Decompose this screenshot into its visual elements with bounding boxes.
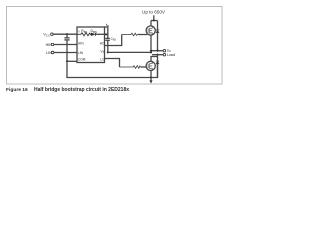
svg-text:Up to 650V: Up to 650V	[142, 9, 166, 14]
wire RG to LS gate	[141, 66, 146, 68]
node VS/switch junction	[150, 51, 152, 53]
resistor RG low side	[120, 66, 142, 69]
wire COM pin	[67, 60, 77, 62]
svg-text:HIN: HIN	[78, 41, 84, 45]
svg-text:LO: LO	[100, 58, 105, 62]
svg-text:CBS: CBS	[111, 37, 117, 42]
diode HS body diode	[157, 21, 159, 30]
wire bus top split	[151, 20, 158, 22]
node CBS/VS junction	[107, 51, 109, 53]
wire HO pin	[105, 35, 122, 46]
terminal To	[163, 49, 166, 52]
node COM/CVCC junction	[66, 60, 68, 62]
capacitor CBS	[105, 38, 109, 52]
wire switch node to Load terminal	[152, 54, 163, 56]
ground	[150, 78, 152, 81]
transistor Q2 low-side MOSFET	[146, 61, 155, 70]
svg-text:V: V	[78, 30, 80, 34]
wire VB column down to CBS	[107, 27, 109, 38]
svg-text:LIN: LIN	[78, 51, 84, 55]
wire HS drain	[150, 21, 152, 26]
terminal Load	[163, 53, 166, 56]
transistor Q1 high-side MOSFET	[146, 26, 155, 35]
diode DBS (internal bootstrap diode)	[91, 33, 95, 36]
node bus junction	[153, 19, 155, 21]
op-amp U1 gate driver IC box	[77, 27, 105, 63]
wire DBS to VB pin	[96, 33, 109, 35]
wire bus drop from 650V label	[153, 15, 155, 20]
wire ground rail	[67, 61, 158, 77]
figure frame border	[7, 7, 223, 85]
wire switch node to To terminal	[151, 50, 163, 52]
node To junction B	[156, 50, 158, 52]
svg-text:HO: HO	[100, 41, 105, 45]
node Load junction	[156, 54, 158, 56]
wire LO pin	[105, 59, 120, 68]
wire IC top edge extension to VB column	[105, 26, 109, 28]
wire HIN to IC	[54, 44, 77, 46]
node VCC/CVCC junction	[66, 33, 68, 35]
wire HS source to switch node	[150, 35, 152, 52]
wire LS drain to switch node	[151, 57, 158, 62]
wire RG to gate	[138, 34, 147, 36]
node VB pin junction	[105, 33, 107, 35]
wire LS source to ground rail	[150, 71, 152, 78]
resistor RG high side	[122, 33, 138, 36]
wire VCC to IC	[53, 33, 77, 35]
svg-text:VCC: VCC	[43, 32, 50, 38]
wire VS to switch node	[108, 51, 151, 53]
capacitor CVCC	[64, 34, 69, 61]
svg-text:Figure 16: Figure 16	[6, 87, 28, 93]
svg-text:Half bridge bootstrap circuit: Half bridge bootstrap circuit in 2ED218x	[34, 87, 129, 93]
svg-text:VS: VS	[101, 49, 105, 54]
diode LS body diode	[157, 55, 159, 61]
svg-text:COM: COM	[78, 58, 86, 62]
label Io current	[106, 24, 109, 27]
svg-text:Load: Load	[167, 53, 175, 57]
node To junction A	[150, 50, 152, 52]
node ground rail junction	[150, 76, 152, 78]
resistor RBS (internal bootstrap resistor)	[77, 33, 91, 36]
wire LIN to IC	[54, 52, 77, 54]
